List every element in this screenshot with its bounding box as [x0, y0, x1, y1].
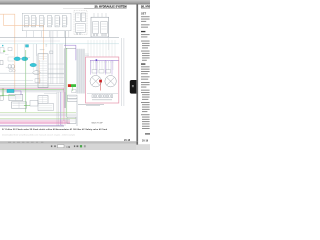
svg-text:20. HYDRAULIC SYSTEM: 20. HYDRAULIC SYSTEM	[94, 4, 127, 8]
svg-text:37 Orifice 38 Check valve 39 F: 37 Orifice 38 Check valve 39 Final clutc…	[2, 128, 108, 131]
svg-text:SET: SET	[141, 11, 146, 15]
svg-text:MAIN PUMP: MAIN PUMP	[92, 121, 104, 124]
svg-text:20. HYDRA: 20. HYDRA	[141, 4, 150, 8]
svg-text:/ 49: / 49	[66, 146, 71, 149]
svg-text:Downloaded from www.Manualslib: Downloaded from www.Manualslib.com manua…	[2, 133, 75, 136]
svg-text:20-19: 20-19	[142, 140, 149, 143]
